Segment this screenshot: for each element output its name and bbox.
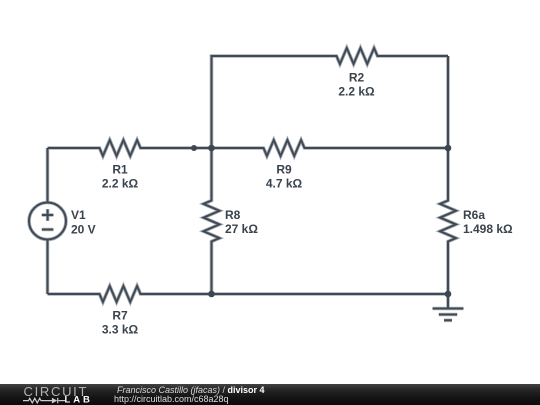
svg-text:27 kΩ: 27 kΩ bbox=[225, 222, 258, 236]
svg-text:R7: R7 bbox=[112, 309, 128, 323]
svg-text:V1: V1 bbox=[71, 208, 86, 222]
svg-text:1.498 kΩ: 1.498 kΩ bbox=[463, 222, 513, 236]
svg-text:R1: R1 bbox=[112, 163, 128, 177]
svg-text:4.7 kΩ: 4.7 kΩ bbox=[266, 177, 303, 191]
svg-text:LAB: LAB bbox=[65, 395, 93, 405]
svg-text:R8: R8 bbox=[225, 208, 241, 222]
svg-text:http://circuitlab.com/c68a28q: http://circuitlab.com/c68a28q bbox=[114, 394, 229, 404]
svg-text:20 V: 20 V bbox=[71, 222, 96, 236]
svg-text:R6a: R6a bbox=[463, 208, 485, 222]
svg-text:R2: R2 bbox=[349, 71, 365, 85]
svg-text:2.2 kΩ: 2.2 kΩ bbox=[102, 177, 139, 191]
svg-text:R9: R9 bbox=[276, 163, 292, 177]
svg-text:3.3 kΩ: 3.3 kΩ bbox=[102, 323, 139, 337]
svg-text:2.2 kΩ: 2.2 kΩ bbox=[338, 85, 375, 99]
